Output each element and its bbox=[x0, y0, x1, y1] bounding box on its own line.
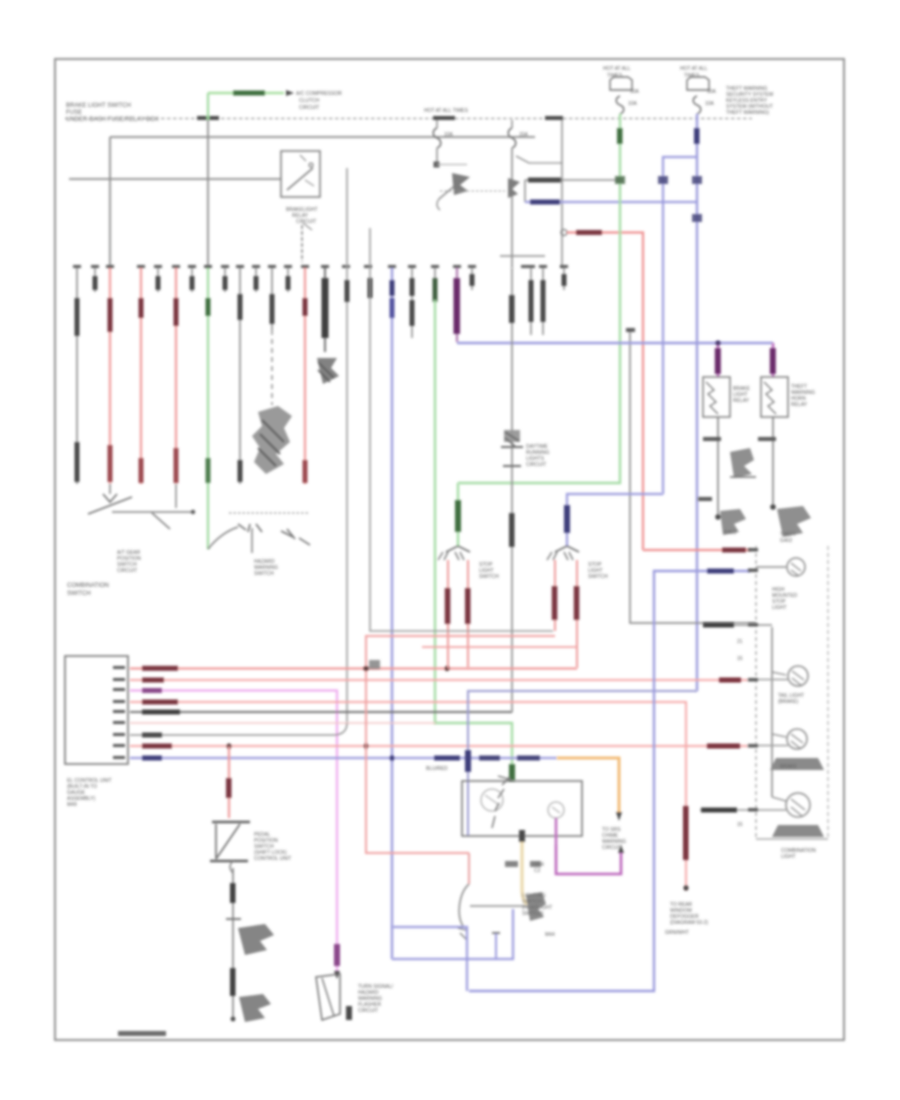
wire bus col x392 blue long bbox=[391, 268, 393, 959]
wire blue bottom y959 bbox=[392, 909, 513, 959]
svg-text:BRAKE: BRAKE bbox=[780, 764, 798, 770]
wire row1 red y668 bbox=[130, 667, 577, 669]
breaker CB1 triangle bbox=[212, 821, 250, 823]
wire bus col x77 gray bbox=[76, 268, 78, 484]
wire bus col x176 red bbox=[175, 268, 177, 484]
node C2 on dashed bus bbox=[433, 116, 455, 120]
ground G5 trapezoid bbox=[772, 825, 824, 837]
node square x437 bbox=[434, 162, 440, 168]
switch S2 under bus (left) bbox=[109, 484, 111, 494]
relay K3 bbox=[761, 377, 788, 417]
ground G1 hatched symbol bbox=[317, 358, 339, 384]
wire stub x256 bbox=[255, 268, 257, 292]
wire blue stub x496 lamp terminal bbox=[495, 934, 497, 959]
wire bus col x240 gray bbox=[239, 268, 241, 484]
wire red drop from row8 bbox=[228, 746, 230, 818]
switch S1 dashed link bbox=[440, 190, 505, 192]
svg-text:CONTROL UNIT: CONTROL UNIT bbox=[254, 856, 291, 862]
switch S1 brake pedal blade bbox=[439, 177, 465, 199]
fuse F1 x437 bbox=[436, 120, 438, 128]
wire gray y631 bbox=[370, 228, 553, 631]
fuse F2 x512 bbox=[511, 120, 513, 128]
wire green vertical x208 upper bbox=[207, 93, 209, 120]
connector pin ticks on ladder bbox=[748, 548, 758, 812]
svg-text:15A: 15A bbox=[519, 132, 529, 138]
relay K2 bbox=[703, 377, 730, 417]
svg-text:RELAY: RELAY bbox=[791, 402, 808, 408]
svg-text:LIGHT: LIGHT bbox=[772, 605, 787, 611]
svg-text:C2: C2 bbox=[534, 868, 541, 874]
wire bus col x305 red bbox=[304, 268, 306, 484]
svg-text:SWITCH: SWITCH bbox=[67, 591, 91, 597]
svg-text:SWITCH: SWITCH bbox=[254, 571, 274, 577]
svg-text:A/C COMPRESSOR: A/C COMPRESSOR bbox=[296, 91, 342, 97]
wire blue vertical x697 bbox=[696, 114, 698, 691]
switch S1 flag bbox=[452, 173, 470, 195]
svg-text:10A: 10A bbox=[444, 132, 454, 138]
fusible link FL1 on x512 bbox=[504, 430, 520, 442]
wire bus col x208 green bbox=[207, 268, 209, 549]
svg-text:HOT AT ALL: HOT AT ALL bbox=[680, 66, 708, 72]
ground G4 trapezoid bbox=[770, 758, 824, 770]
wire col x370 bbox=[368, 278, 373, 298]
bulb B2 tail bbox=[772, 672, 786, 675]
wire red x686 drop label bbox=[683, 806, 689, 860]
svg-text:M44: M44 bbox=[545, 932, 555, 938]
wire row9 blue y758 bbox=[130, 757, 557, 759]
relay K1 blade bbox=[287, 168, 313, 190]
wire row6 pale pink y723 bbox=[130, 722, 436, 724]
wire purple U bbox=[556, 845, 621, 874]
wire stub right of node bbox=[437, 164, 467, 166]
wire green jog vertical from y483 bbox=[457, 483, 459, 546]
wire row7 gray thin y735 bbox=[130, 723, 347, 735]
wire blue to switch S5 bbox=[567, 494, 663, 546]
switch S3 under bus (right, hazard) bbox=[208, 527, 238, 549]
svg-text:COMBINATION: COMBINATION bbox=[67, 583, 109, 589]
connector J1 big blob bbox=[252, 406, 292, 474]
svg-text:15: 15 bbox=[737, 822, 743, 828]
wire row3 pink y690 bbox=[130, 691, 337, 975]
wire vertical x110 top bbox=[109, 137, 111, 268]
svg-text:CIRCUIT: CIRCUIT bbox=[358, 1008, 378, 1014]
node junction dots bbox=[444, 666, 449, 671]
wire horizontal y179 bbox=[69, 178, 281, 180]
wire stub x95 bbox=[94, 268, 96, 292]
wire row8 red y746 bbox=[130, 745, 748, 747]
connector boundary C dashed right bbox=[827, 546, 829, 839]
splice flag P1 bbox=[238, 924, 274, 955]
label LT GRN (dark green) bbox=[233, 91, 265, 96]
wire bus col x110 red bbox=[109, 268, 111, 484]
svg-text:SWITCH: SWITCH bbox=[588, 574, 608, 580]
svg-text:TIMES: TIMES bbox=[684, 73, 700, 79]
connector boundary C dashed left bbox=[755, 546, 757, 839]
bus connector ticks top row bbox=[73, 265, 568, 268]
svg-text:TIMES: TIMES bbox=[607, 73, 623, 79]
svg-text:CLUTCH: CLUTCH bbox=[299, 98, 320, 104]
svg-text:10A: 10A bbox=[628, 101, 638, 107]
wire below breaker bbox=[230, 861, 233, 873]
svg-text:GRN/WHT: GRN/WHT bbox=[665, 930, 689, 936]
wire y625 label bbox=[703, 623, 734, 628]
svg-text:CIRCUIT: CIRCUIT bbox=[117, 568, 137, 574]
ground G2 bbox=[720, 509, 746, 535]
connector tick pair x620 bbox=[615, 176, 625, 184]
svg-text:RELAY: RELAY bbox=[733, 398, 750, 404]
svg-text:G402: G402 bbox=[780, 538, 792, 544]
wire gray y691 headlight feed bbox=[468, 691, 697, 836]
wire blue horizontal y343 bbox=[457, 342, 773, 344]
wire bus col x346 gray long bbox=[346, 168, 348, 723]
wire horizontal y137 bbox=[110, 136, 535, 138]
node C1 on dashed bus bbox=[197, 116, 219, 120]
switch S1 second contact blob bbox=[508, 178, 520, 198]
wire blue x654 big loop bbox=[469, 571, 750, 991]
wire stub x412 bbox=[411, 268, 413, 338]
wire stub x158 bbox=[157, 268, 159, 292]
wire red y647 stub bbox=[422, 646, 577, 648]
svg-text:15: 15 bbox=[737, 656, 743, 662]
svg-text:CIRCUIT: CIRCUIT bbox=[526, 462, 546, 468]
border frame bbox=[55, 59, 844, 1040]
svg-text:BRAKE LIGHT SWITCH: BRAKE LIGHT SWITCH bbox=[66, 103, 131, 109]
wire blue y202 bbox=[525, 201, 697, 203]
svg-text:21: 21 bbox=[737, 639, 743, 645]
label BLU cap x697 bbox=[694, 128, 700, 144]
ground G3 flag bbox=[777, 506, 811, 537]
wire red y636 bbox=[366, 636, 555, 853]
svg-text:30A: 30A bbox=[630, 89, 640, 95]
bulb B3 bbox=[772, 734, 786, 737]
connector ticks x697 bbox=[692, 176, 702, 184]
wire col x457 purple to blue bbox=[456, 268, 458, 342]
relay K1 box bbox=[281, 151, 320, 197]
svg-text:CIRCUIT: CIRCUIT bbox=[299, 105, 319, 111]
wire blue elbow y157 bbox=[663, 157, 697, 494]
svg-text:HOT AT ALL: HOT AT ALL bbox=[603, 66, 631, 72]
label purple stub x718 bbox=[717, 343, 719, 377]
connector P3 open flag bbox=[316, 974, 340, 1020]
svg-text:CIRCUIT: CIRCUIT bbox=[296, 219, 316, 225]
bulb ladder inner vertical bbox=[771, 627, 773, 797]
border bottom-left tick bbox=[118, 1031, 166, 1036]
node C3 on dashed bus bbox=[545, 116, 563, 120]
wire bus col x272 gray with dashes bbox=[271, 268, 273, 330]
wire bus col x435 green long bbox=[434, 268, 436, 300]
svg-text:30A: 30A bbox=[707, 89, 717, 95]
switch S4 stop light A bbox=[446, 546, 470, 552]
label GRN cap x620 bbox=[617, 128, 623, 144]
svg-text:THEFT WARNING): THEFT WARNING) bbox=[726, 110, 769, 116]
svg-text:G401: G401 bbox=[724, 530, 736, 536]
wire stub x192 bbox=[191, 268, 193, 292]
bulb B4 bbox=[772, 797, 786, 801]
wire red y232 bbox=[561, 230, 567, 236]
wire row5 gray y712 bbox=[130, 711, 512, 713]
wire col x512 gray long bbox=[511, 268, 513, 712]
wire gray vertical x630 brake feed bbox=[626, 328, 635, 332]
node tick y256 on x512 bbox=[500, 255, 545, 257]
lamp L0 arc bbox=[468, 853, 470, 884]
wire orange bbox=[557, 758, 619, 812]
wire under K2 bbox=[717, 417, 719, 517]
wire bus col x141 red bbox=[140, 268, 142, 484]
connector boundary bottom bbox=[756, 838, 828, 840]
wire row4 red y702 bbox=[130, 702, 686, 890]
svg-text:M49: M49 bbox=[67, 802, 77, 808]
switch S1 hook bbox=[437, 198, 440, 210]
splice flag P2 bbox=[239, 994, 271, 1022]
wire under K3 bbox=[772, 417, 774, 507]
wire stub x562 bbox=[561, 120, 563, 268]
svg-text:(BRAKE): (BRAKE) bbox=[778, 699, 799, 705]
svg-text:HOT AT ALL TIMES: HOT AT ALL TIMES bbox=[424, 108, 469, 114]
wire dashed bus top bbox=[65, 118, 752, 120]
diode D1 hatched bbox=[730, 448, 754, 478]
wire bus col x325 dark short bbox=[324, 268, 326, 352]
svg-text:LIGHT: LIGHT bbox=[781, 854, 796, 860]
svg-text:FUSE: FUSE bbox=[66, 110, 82, 116]
label RED y232 bbox=[576, 230, 602, 235]
wire stub x472 bbox=[471, 268, 473, 290]
label purple stub x773 bbox=[772, 343, 774, 377]
svg-text:SWITCH): SWITCH) bbox=[522, 911, 544, 917]
wire stubs x531 x543 bbox=[530, 268, 532, 335]
switch S5 stop light B bbox=[555, 546, 579, 552]
component blob right of lamp bbox=[526, 892, 546, 921]
pin ticks bbox=[113, 666, 125, 759]
label BLU y202 bbox=[530, 200, 560, 205]
connector tick x663 bbox=[658, 176, 668, 184]
wire tan NAT below box bbox=[522, 836, 527, 904]
svg-text:10A: 10A bbox=[705, 101, 715, 107]
svg-text:SWITCH: SWITCH bbox=[479, 574, 499, 580]
wire bracket y163 from fuse bbox=[516, 156, 562, 163]
wire stub x288 bbox=[287, 268, 289, 292]
wire row2 red y680 bbox=[130, 679, 748, 681]
wire stub x225 bbox=[224, 268, 226, 292]
node arrow to A/C bbox=[286, 90, 294, 96]
wire y180 horizontal bbox=[525, 179, 621, 181]
svg-text:BLU/RED: BLU/RED bbox=[426, 766, 448, 772]
wire pink bottom bbox=[334, 944, 340, 966]
wire green top horizontal bbox=[208, 92, 284, 95]
svg-text:(DIAGRAM 53-2): (DIAGRAM 53-2) bbox=[670, 920, 708, 926]
wire green vertical x620 bbox=[458, 114, 620, 483]
wire blue x467 segment bbox=[392, 927, 467, 991]
wire red x643 to ladder bbox=[643, 549, 750, 551]
wire stub x564 bbox=[563, 268, 565, 290]
bulb B1 high mount bbox=[756, 566, 786, 568]
wire relay K1 output stub bbox=[301, 225, 303, 262]
